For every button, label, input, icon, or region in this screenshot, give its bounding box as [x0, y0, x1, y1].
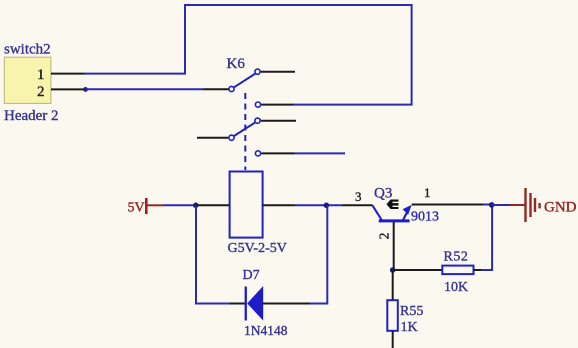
svg-text:1K: 1K [401, 320, 418, 335]
svg-text:3: 3 [355, 189, 362, 204]
svg-text:switch2: switch2 [4, 42, 51, 58]
svg-text:GND: GND [544, 200, 577, 216]
svg-text:1N4148: 1N4148 [244, 323, 288, 338]
svg-text:Q3: Q3 [374, 186, 392, 202]
svg-text:R55: R55 [400, 304, 423, 319]
svg-text:K6: K6 [227, 56, 246, 72]
svg-text:10K: 10K [444, 280, 468, 295]
svg-text:2: 2 [377, 233, 392, 240]
svg-text:9013: 9013 [411, 210, 439, 225]
svg-text:1: 1 [37, 67, 45, 83]
svg-text:2: 2 [37, 84, 45, 100]
svg-text:G5V-2-5V: G5V-2-5V [228, 241, 287, 256]
svg-text:Header 2: Header 2 [4, 108, 59, 124]
svg-text:D7: D7 [243, 268, 260, 283]
svg-text:1: 1 [424, 185, 431, 200]
svg-text:5V: 5V [128, 201, 145, 216]
svg-text:R52: R52 [444, 250, 469, 265]
